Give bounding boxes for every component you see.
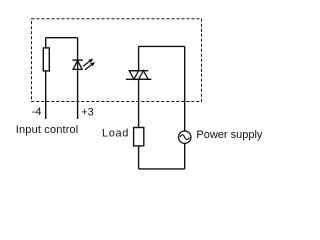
wire: input top horizontal (resistor branch to LED branch)	[46, 37, 78, 39]
svg-text:Input control: Input control	[16, 124, 79, 136]
wire: power supply bottom lead	[184, 143, 186, 169]
LED light emission arrow 1	[83, 59, 93, 67]
wire: bottom horizontal (load to power supply)	[139, 168, 185, 170]
AC power supply source circle	[179, 131, 191, 143]
wire: supply branch vertical (top horizontal to AC source)	[184, 46, 186, 131]
triac/output switch top bar	[129, 70, 148, 72]
load (resistor rectangle)	[134, 128, 144, 146]
wire: triac branch vertical upper	[138, 46, 140, 70]
triac bottom bar	[126, 78, 151, 80]
svg-text:-4: -4	[32, 106, 42, 118]
svg-text:Load: Load	[102, 128, 129, 140]
triac left triangle (points down)	[129, 71, 138, 80]
wire: resistor branch vertical upper	[45, 38, 47, 48]
SSR module dashed boundary box	[32, 19, 202, 102]
AC sine wave inside source	[180, 135, 189, 140]
wire: resistor branch vertical lower, input terminal -4 lead	[45, 71, 47, 119]
wire: LED branch vertical, input terminal +3 lead	[77, 38, 79, 119]
LED D1 cathode bar	[72, 59, 82, 61]
LED light emission arrow 2	[85, 62, 95, 70]
svg-text:+3: +3	[81, 106, 94, 118]
wire: output top horizontal (triac branch to supply branch)	[139, 45, 185, 47]
wire: load bottom lead	[138, 146, 140, 169]
wire: triac to load	[138, 79, 140, 127]
LED D1 triangle	[73, 60, 82, 69]
resistor R1 (input series resistor)	[43, 48, 49, 71]
svg-text:Power supply: Power supply	[196, 129, 263, 141]
triac right triangle (points up)	[139, 71, 149, 80]
